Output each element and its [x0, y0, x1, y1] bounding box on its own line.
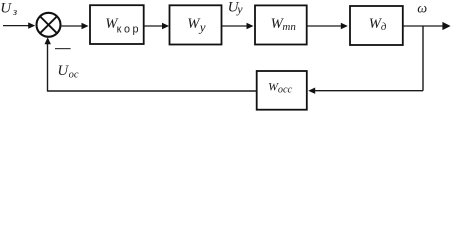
svg-text:у: у: [198, 20, 206, 35]
wire: input arrow into summing junction: [3, 22, 35, 28]
svg-text:тп: тп: [282, 21, 296, 33]
svg-text:U: U: [0, 0, 12, 16]
wire: W_occ output back to summing junction: [45, 37, 257, 91]
wire: W_d output to arrow tip: [403, 22, 451, 30]
block W_tp (thyristor converter): [255, 5, 307, 44]
block W_occ (speed feedback): [257, 71, 307, 110]
svg-text:ос: ос: [69, 70, 79, 81]
svg-text:кор: кор: [117, 23, 141, 35]
block W_d (motor): [350, 6, 403, 45]
svg-text:U: U: [57, 63, 69, 79]
wire: summing junction to W_kor: [62, 23, 89, 29]
svg-text:ω: ω: [417, 1, 427, 16]
block W_u (amplifier): [170, 5, 222, 44]
label Uз (input signal): [0, 0, 17, 18]
svg-text:д: д: [381, 21, 387, 33]
summing junction (circle with X): [37, 13, 61, 37]
minus sign at feedback input: [55, 48, 71, 50]
svg-text:з: з: [12, 7, 17, 18]
wire: feedback horizontal into W_occ: [308, 88, 423, 94]
label Uос (feedback signal): [57, 63, 78, 80]
svg-text:осс: осс: [278, 85, 293, 96]
wire: W_u to W_tp: [222, 23, 254, 29]
wire: feedback vertical drop at right: [422, 26, 424, 91]
wire: W_tp to W_d: [307, 23, 348, 29]
label Uу (control voltage): [228, 0, 244, 16]
wire: W_kor to W_u: [144, 23, 169, 29]
svg-text:у: у: [236, 2, 243, 16]
block W_kor (corrector): [90, 5, 144, 44]
